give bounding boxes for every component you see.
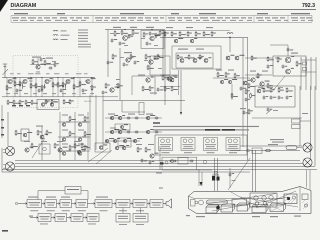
- value label: [54, 72, 60, 75]
- value label: [141, 37, 145, 40]
- transistor T29: [23, 133, 27, 137]
- wire: [19, 78, 21, 97]
- header rule: [10, 9, 316, 11]
- stage caption: [119, 209, 127, 212]
- resistor R18: [19, 100, 21, 105]
- resistor R21: [45, 99, 47, 104]
- pinout bottom view 3b: [211, 139, 215, 143]
- resistor R10: [73, 84, 75, 90]
- dial cord: [240, 197, 298, 207]
- block diagram sub box 1: [116, 214, 130, 223]
- resistor R17: [13, 100, 15, 105]
- feedback wire: [87, 191, 89, 200]
- legend list entry: [78, 32, 88, 33]
- pinout cell 4: [226, 138, 240, 151]
- long vertical wire: [242, 38, 244, 147]
- lamp: [214, 171, 217, 174]
- pinout caption: [205, 147, 216, 150]
- module outline: [39, 144, 50, 154]
- wire: [95, 95, 97, 150]
- capacitor C21: [267, 65, 270, 69]
- value label: [28, 72, 34, 75]
- resistor R27: [143, 32, 145, 38]
- resistor R39: [149, 86, 151, 92]
- wire: [287, 45, 289, 56]
- transistor T16: [180, 59, 184, 63]
- wire (diagonal): [88, 148, 108, 162]
- note heading: [153, 122, 160, 123]
- block diagram stage B3: [71, 214, 83, 222]
- value label: [36, 126, 43, 127]
- coil L2: [43, 84, 46, 89]
- transistor T9: [126, 58, 130, 62]
- scale value label: [21, 17, 26, 18]
- block label: [135, 202, 146, 203]
- terminal mark: [1, 119, 4, 121]
- resistor R38: [142, 86, 144, 92]
- capacitor C9: [111, 39, 114, 43]
- block label line2: [74, 218, 81, 221]
- scale value label: [300, 17, 305, 18]
- capacitor C6: [40, 58, 43, 62]
- block label: [78, 202, 87, 203]
- value label: [43, 92, 47, 95]
- capacitor C19: [240, 87, 243, 91]
- dial scale top line: [11, 14, 312, 16]
- resistor R46: [195, 31, 197, 37]
- value label: [108, 114, 115, 115]
- resistor R25: [114, 30, 116, 36]
- block label line2: [136, 204, 145, 207]
- legend list entry: [78, 38, 88, 39]
- wire: [140, 208, 142, 214]
- value label: [240, 108, 246, 109]
- junction node: [57, 77, 58, 78]
- scale value label: [130, 19, 134, 22]
- trimmer arrow: [266, 110, 271, 114]
- dial scale bottom line: [11, 21, 312, 23]
- speaker icon: [163, 199, 172, 208]
- plus mark: [26, 105, 30, 106]
- resistor R9: [62, 82, 64, 88]
- wire: [37, 58, 39, 65]
- pilot lamp: [286, 146, 297, 150]
- transistor T52: [99, 146, 103, 150]
- value label: [35, 72, 41, 75]
- value label: [17, 72, 21, 75]
- wire: [102, 95, 104, 150]
- transistor T3: [45, 79, 49, 83]
- module label: [178, 49, 188, 50]
- transistor T30: [40, 135, 44, 139]
- value label: [154, 44, 158, 47]
- resistor R77: [286, 87, 288, 93]
- wire: [30, 78, 32, 97]
- wire: [301, 71, 316, 73]
- module outline: [178, 158, 188, 165]
- transistor T53: [115, 146, 119, 150]
- resistor R37: [117, 83, 119, 89]
- block caption: [61, 197, 70, 198]
- bracket outline: [139, 103, 144, 115]
- scale value label: [230, 19, 236, 22]
- scale value label: [60, 17, 67, 18]
- junction node: [30, 77, 31, 78]
- value label: [120, 56, 124, 59]
- resistor R59: [267, 56, 269, 61]
- scale value label: [301, 19, 305, 22]
- capacitor C11: [149, 32, 152, 36]
- scale value label: [225, 17, 230, 18]
- transistor T row1: [165, 161, 168, 164]
- scale value label: [146, 19, 151, 22]
- resistor R45: [187, 31, 189, 37]
- wire: [245, 57, 273, 59]
- resistor R84: [137, 147, 139, 153]
- capacitor C23: [287, 48, 290, 52]
- wire to chassis: [214, 158, 216, 191]
- signal arrow: [83, 217, 87, 219]
- value label: [76, 72, 82, 75]
- dial scale divider: [253, 15, 255, 22]
- resistor R24: [69, 99, 71, 104]
- value label: [78, 115, 84, 116]
- value label: [33, 92, 37, 95]
- value label: [262, 71, 268, 72]
- wire: [229, 168, 231, 188]
- left edge wire: [1, 105, 3, 138]
- resistor R55: [234, 73, 236, 79]
- scale heading label: [57, 13, 65, 14]
- value label: [72, 92, 76, 95]
- wire: [103, 100, 185, 102]
- value label: [113, 27, 121, 28]
- resistor R31: [145, 54, 147, 60]
- scale heading label: [199, 13, 216, 14]
- wire: [91, 78, 93, 97]
- side wall hatch: [302, 200, 308, 209]
- signal arrow: [51, 217, 55, 219]
- scale value label: [28, 17, 36, 18]
- dial scale divider: [311, 15, 313, 22]
- left bracket: [191, 200, 196, 207]
- resistor R70: [69, 131, 71, 137]
- wire: [59, 112, 61, 160]
- pinout cell 2: [181, 138, 195, 151]
- scale value label: [72, 19, 78, 22]
- resistor R19: [25, 100, 27, 105]
- resistor R57: [248, 109, 250, 115]
- block label: [47, 202, 56, 203]
- scale value label: [37, 19, 43, 22]
- resistor R8: [57, 82, 59, 88]
- scale value label: [55, 19, 62, 22]
- block label line2: [48, 204, 55, 207]
- value label: [268, 86, 273, 89]
- value label: [268, 144, 278, 145]
- capacitor C25: [127, 131, 131, 134]
- speaker wire: [240, 145, 302, 147]
- block label: [118, 217, 128, 220]
- value label: [65, 72, 69, 75]
- wire: [162, 169, 212, 171]
- block label: [67, 189, 79, 190]
- speaker wire: [2, 171, 250, 173]
- capacitor C36: [149, 161, 152, 165]
- transistor T26: [260, 82, 264, 86]
- wire: [30, 64, 55, 66]
- ferrite rod box: [232, 199, 247, 205]
- input arrow: [18, 203, 27, 205]
- power transistor (dark): [216, 206, 220, 210]
- capacitor C31: [270, 96, 273, 100]
- resistor R row1: [169, 160, 176, 162]
- value label: [78, 144, 84, 145]
- dial glass: [207, 200, 228, 204]
- capacitor C27: [135, 131, 139, 134]
- value label: [24, 141, 30, 142]
- stage caption: [47, 209, 55, 212]
- value label: [90, 92, 94, 95]
- scale value label: [267, 19, 271, 22]
- transistor T1: [8, 79, 12, 83]
- resistor R68: [69, 116, 71, 122]
- resistor R1: [6, 85, 8, 91]
- block caption: [96, 197, 108, 198]
- legend coil symbol 2: [53, 34, 58, 37]
- resistor R63: [257, 73, 259, 79]
- block diagram stage 1: [27, 200, 42, 208]
- scale value label: [81, 19, 86, 22]
- block label line2: [98, 204, 110, 207]
- block caption: [119, 223, 127, 226]
- scale value label: [12, 17, 19, 18]
- scale value label: [280, 17, 285, 18]
- type label: [207, 152, 215, 153]
- transistor T14: [174, 39, 178, 43]
- value label: [41, 141, 47, 142]
- scale value label: [52, 17, 57, 18]
- transistor T41: [146, 116, 150, 120]
- capacitor C drop: [229, 173, 232, 177]
- block label: [97, 202, 111, 203]
- resistor R13: [32, 59, 34, 65]
- value label: [62, 144, 68, 145]
- signal arrow: [130, 203, 133, 205]
- wire: [159, 146, 161, 170]
- scale value label: [112, 17, 119, 18]
- signal arrow: [147, 203, 150, 205]
- block diagram stage 7: [133, 200, 147, 208]
- resistor R52: [162, 75, 164, 81]
- value label: [146, 27, 154, 28]
- fuse F2: [303, 68, 307, 71]
- wire: [62, 78, 64, 97]
- chassis caption: [294, 216, 301, 217]
- ground arrow: [180, 112, 182, 115]
- capacitor C30: [263, 96, 266, 100]
- value label: [110, 128, 116, 129]
- resistor R42: [164, 31, 166, 37]
- block label line2: [41, 218, 49, 221]
- transistor T35: [62, 152, 66, 156]
- scale value label: [291, 17, 298, 18]
- transistor T50: [58, 148, 62, 152]
- block label line2: [30, 204, 40, 207]
- scale value label: [70, 17, 74, 18]
- capacitor C20: [243, 111, 246, 115]
- scale value label: [222, 19, 226, 22]
- capacitor C34: [245, 98, 248, 102]
- block label: [73, 216, 82, 217]
- capacitor C22: [282, 65, 285, 69]
- capacitor C28: [155, 117, 159, 120]
- legend list entry: [78, 41, 88, 42]
- value label: [78, 130, 84, 131]
- IF transformer (dark): [284, 194, 297, 204]
- resistor R32: [157, 54, 159, 60]
- resistor R50: [188, 54, 190, 60]
- plus mark: [19, 105, 23, 106]
- type label: [184, 152, 192, 153]
- transistor T4: [66, 79, 70, 83]
- speaker jack LS4: [303, 158, 312, 167]
- value label: [52, 60, 56, 63]
- resistor R22: [51, 99, 53, 104]
- pinout legend box: [155, 135, 247, 155]
- transistor T42: [146, 130, 150, 134]
- type label: [162, 152, 170, 153]
- IF transformer core: [287, 197, 290, 200]
- value label: [124, 52, 132, 53]
- scale value label: [84, 17, 89, 18]
- value label: [291, 53, 298, 54]
- value label: [46, 58, 53, 59]
- trimmer 1: [255, 202, 259, 206]
- resistor R26: [132, 29, 134, 35]
- chassis fold right: [299, 187, 301, 212]
- transistor T47: [133, 139, 136, 142]
- capacitor C3: [60, 89, 63, 93]
- wire: [58, 150, 90, 152]
- pinout caption: [160, 143, 171, 146]
- wire: [160, 30, 230, 32]
- scale value label: [44, 17, 50, 18]
- scale value label: [248, 17, 252, 18]
- speaker jack LS1: [5, 146, 14, 155]
- resistor R12: [91, 85, 93, 91]
- transistor T49: [25, 148, 29, 152]
- dial scale divider: [92, 15, 94, 22]
- transformer X mark: [270, 205, 284, 212]
- scale value label: [137, 19, 143, 22]
- block label: [135, 215, 146, 218]
- transistor T7: [123, 36, 128, 41]
- value label: [116, 79, 120, 80]
- scale value label: [138, 17, 143, 18]
- wire: [95, 96, 118, 98]
- wire: [154, 76, 156, 95]
- wire to chassis: [217, 158, 219, 191]
- pinout bottom view 3a: [206, 139, 210, 143]
- capacitor C below: [267, 108, 270, 112]
- scale value label: [184, 17, 191, 18]
- resistor R76: [278, 87, 280, 93]
- pinout cell 1: [159, 138, 173, 151]
- dial cord: [256, 191, 296, 208]
- resistor R16: [7, 100, 9, 105]
- transistor T5: [86, 79, 90, 83]
- input arrow: [30, 217, 38, 219]
- pinout caption: [228, 143, 239, 146]
- value label: [12, 80, 16, 83]
- resistor R73: [84, 145, 86, 151]
- resistor R30: [155, 33, 157, 38]
- resistor R2: [14, 81, 16, 87]
- wire: [297, 147, 302, 149]
- transistor T row2: [171, 160, 174, 163]
- scale value label: [217, 17, 223, 18]
- wire: [305, 57, 307, 90]
- legend coil text: [61, 39, 68, 40]
- module outline: [115, 124, 130, 130]
- feedback wire: [37, 191, 39, 200]
- scale value label: [169, 19, 175, 22]
- value label: [62, 92, 66, 95]
- IF trimmer: [292, 196, 295, 199]
- speaker wire: [230, 150, 300, 152]
- transistor T27: [41, 103, 45, 107]
- signal arrow: [88, 203, 96, 205]
- scale heading label: [257, 13, 268, 14]
- resistor R53: [217, 72, 219, 78]
- value label: [128, 114, 135, 115]
- transistor T25: [251, 78, 255, 82]
- wire: [73, 78, 75, 97]
- capacitor C10: [128, 35, 131, 39]
- scale value label: [265, 17, 270, 18]
- pinout caption: [229, 145, 238, 148]
- transistor T lm1: [43, 147, 47, 151]
- dial pulley: [199, 200, 204, 205]
- value label: [10, 72, 14, 75]
- scale value label: [38, 17, 42, 18]
- chassis caption: [186, 215, 190, 216]
- main bus wire: [2, 77, 95, 79]
- pinout bottom view 2a: [183, 139, 187, 143]
- antenna: [3, 64, 9, 78]
- scale value label: [196, 19, 200, 22]
- resistor R23: [63, 99, 65, 104]
- resistor R69: [84, 116, 86, 122]
- block label line2: [119, 204, 128, 207]
- dial cord: [212, 197, 288, 211]
- transistor T33: [62, 138, 66, 142]
- value label: [57, 141, 63, 142]
- block label: [135, 217, 146, 220]
- transistor T32: [78, 123, 82, 127]
- arrow marker: [200, 182, 203, 186]
- resistor R44: [179, 31, 181, 37]
- pinout caption: [206, 145, 215, 148]
- transistor T24: [243, 81, 247, 85]
- block diagram stage 6: [116, 200, 130, 208]
- filter module outline: [37, 100, 59, 110]
- scale value label: [247, 19, 252, 22]
- svg-text:DIAGRAM: DIAGRAM: [11, 3, 37, 9]
- value label: [156, 173, 162, 174]
- block diagram stage 2: [45, 200, 57, 208]
